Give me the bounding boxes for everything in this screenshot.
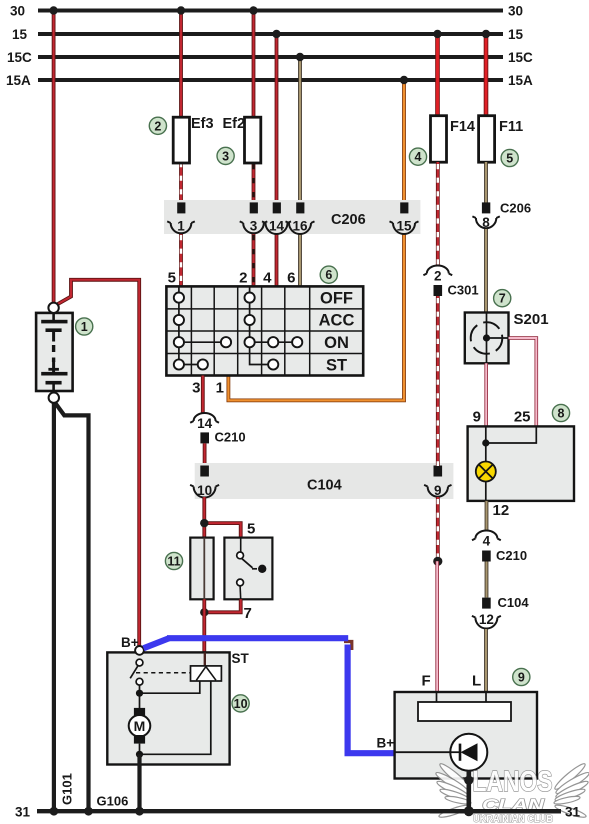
label circled 11: [165, 552, 182, 569]
lamp: [476, 462, 496, 482]
wire battery negative black: [50, 400, 93, 816]
wire alternator ground black overdraw: [430, 771, 581, 820]
wire C210-4 to C104-12 tan: [485, 562, 489, 598]
svg-text:16: 16: [292, 219, 308, 234]
wire F14 output red-white striped: [436, 162, 440, 266]
wire S201 to cluster pin25 pink: [509, 338, 537, 426]
svg-text:15C: 15C: [508, 50, 533, 65]
connector C210 pin 4: [472, 531, 527, 564]
svg-text:1: 1: [81, 320, 88, 334]
connector C104 pin 12: [472, 595, 529, 629]
connector C104 pin 9: [424, 466, 451, 499]
connector C104 band: [195, 463, 454, 499]
wire relay output red: [200, 599, 241, 616]
svg-text:14: 14: [269, 219, 285, 234]
svg-text:F: F: [422, 673, 431, 690]
label circled 1: [76, 318, 93, 335]
fuse F11: [479, 116, 524, 163]
label circled 5: [501, 149, 518, 166]
fuse F14: [431, 116, 476, 163]
svg-text:8: 8: [482, 215, 490, 230]
B+ line and diode: [395, 751, 451, 753]
svg-text:5: 5: [168, 270, 176, 287]
svg-text:30: 30: [10, 4, 25, 19]
svg-text:C301: C301: [448, 283, 479, 298]
solenoid box with arrow: [191, 666, 222, 681]
svg-text:10: 10: [197, 483, 212, 498]
connector C206 pin 1: [167, 202, 195, 233]
svg-text:L: L: [472, 673, 481, 690]
svg-text:B+: B+: [377, 736, 395, 751]
relay coil box: [190, 538, 213, 600]
wire pin1 ignition orange: [228, 233, 404, 400]
svg-text:OFF: OFF: [320, 289, 353, 307]
svg-text:15: 15: [508, 27, 524, 42]
svg-text:9: 9: [473, 409, 481, 426]
connector C206 pin 14: [262, 202, 291, 234]
wire C210 to C104 red: [203, 443, 207, 466]
wire pin5 ignition red-white striped: [179, 233, 183, 287]
svg-text:B+: B+: [121, 635, 139, 650]
svg-text:12: 12: [493, 502, 510, 519]
grid lines: [166, 286, 363, 375]
solenoid input dark wire: [204, 652, 206, 666]
svg-text:31: 31: [15, 805, 31, 820]
svg-text:3: 3: [250, 219, 258, 234]
svg-text:Ef2: Ef2: [223, 116, 246, 132]
svg-text:4: 4: [483, 534, 491, 549]
label circled 6: [320, 266, 337, 283]
svg-text:ACC: ACC: [319, 312, 355, 330]
bus 15: [12, 27, 524, 42]
label circled 4: [409, 148, 426, 165]
wire to alternator F pink: [435, 561, 439, 692]
svg-text:F11: F11: [499, 119, 523, 135]
svg-text:2: 2: [154, 119, 161, 133]
relay contact box: [224, 538, 272, 600]
svg-text:C206: C206: [500, 201, 531, 216]
svg-text:7: 7: [499, 292, 506, 306]
connector C206 pin 15: [390, 202, 419, 234]
connector C104 pin 10: [190, 466, 219, 499]
svg-text:9: 9: [518, 671, 525, 685]
fuse Ef2: [223, 116, 261, 163]
wire F11 supply red: [482, 30, 490, 117]
svg-text:25: 25: [514, 409, 531, 426]
svg-text:14: 14: [197, 416, 213, 431]
ignition pin3 output wire red: [201, 376, 205, 414]
wire battery positive to starter B+ red: [55, 280, 139, 647]
connector C206 pin 16: [286, 202, 315, 234]
bus 30: [10, 4, 523, 19]
battery B1: [36, 303, 73, 403]
svg-text:1: 1: [216, 380, 224, 397]
svg-text:3: 3: [222, 149, 229, 163]
wire C206-8 to S201 tan: [484, 229, 488, 313]
svg-text:1: 1: [177, 219, 185, 234]
IGNITION SWITCH component 6: [166, 286, 363, 375]
wire pin4 ignition red: [275, 233, 279, 287]
wire pin6 ignition tan: [298, 233, 302, 287]
svg-text:ST: ST: [326, 356, 347, 374]
label circled 9: [513, 668, 530, 685]
wire pin2 ignition red-black striped: [252, 233, 256, 287]
bus 15A: [6, 73, 533, 88]
fuse Ef3: [173, 116, 213, 163]
connector C301 pin 2: [423, 266, 478, 298]
motor M: [139, 693, 141, 709]
svg-text:3: 3: [192, 380, 200, 397]
svg-text:15A: 15A: [6, 73, 31, 88]
wire alternator ground black: [464, 771, 473, 816]
label circled 2: [149, 117, 166, 134]
internal connections: [179, 286, 297, 364]
svg-text:4: 4: [263, 270, 272, 287]
wire starter ground black: [135, 754, 144, 815]
svg-text:C210: C210: [496, 548, 527, 563]
svg-text:F14: F14: [450, 119, 475, 135]
B+ terminal: [135, 646, 144, 655]
svg-text:M: M: [134, 718, 146, 734]
wire S201 to cluster pin9 pink: [484, 363, 488, 426]
wire F14 supply red: [433, 30, 441, 117]
connector C206 pin 8: [472, 201, 531, 231]
svg-text:31: 31: [565, 805, 581, 820]
label circled 7: [494, 290, 511, 307]
wire C104-9 down red-white striped: [436, 497, 440, 561]
svg-text:15: 15: [12, 27, 28, 42]
regulator rect: [418, 702, 511, 721]
svg-text:6: 6: [325, 268, 332, 282]
STARTER component 10: [107, 646, 229, 765]
wire C104-10 down red: [202, 497, 206, 538]
svg-text:G101: G101: [60, 773, 75, 805]
wire battery feed red: [49, 6, 57, 304]
svg-text:LANOS: LANOS: [473, 766, 553, 798]
node F wire junction: [433, 557, 442, 566]
svg-text:UKRAINIAN CLUB: UKRAINIAN CLUB: [473, 814, 553, 824]
wire C206-16 supply tan: [296, 53, 304, 203]
svg-text:11: 11: [167, 555, 180, 569]
svg-text:C206: C206: [331, 212, 366, 228]
wire cluster-12 tan: [485, 501, 489, 530]
ALTERNATOR component 9: [395, 692, 537, 779]
contact circles: [174, 293, 303, 370]
wire C206-14 supply red: [272, 30, 280, 203]
svg-text:10: 10: [234, 697, 248, 711]
starter switch: [136, 659, 143, 666]
wire Ef3 supply red: [177, 6, 185, 118]
svg-text:Ef3: Ef3: [191, 116, 214, 132]
svg-text:5: 5: [247, 521, 255, 538]
svg-text:C104: C104: [498, 595, 530, 610]
bus 31: [15, 805, 561, 820]
ignition switch body: [166, 286, 363, 375]
connector C206 band: [164, 200, 420, 234]
blue highlight wire B+ to alternator: [144, 638, 397, 753]
svg-text:8: 8: [558, 407, 565, 421]
label circled 3: [217, 147, 234, 164]
wire to alternator L tan: [484, 629, 488, 692]
svg-text:15A: 15A: [508, 73, 533, 88]
wire Ef3 output red-white striped: [179, 162, 183, 203]
SWITCH S201 component 7: [465, 313, 509, 364]
wire Ef2 output red-black striped: [252, 162, 256, 203]
svg-text:5: 5: [506, 152, 513, 166]
wire relay branch red: [200, 519, 241, 538]
svg-text:9: 9: [434, 483, 442, 498]
wire F11 output tan: [484, 162, 488, 203]
svg-text:G106: G106: [97, 794, 129, 809]
svg-text:15C: 15C: [7, 50, 32, 65]
connector C206 pin 3: [240, 202, 268, 233]
wire C206-15 supply orange: [400, 76, 408, 203]
svg-text:ST: ST: [232, 651, 250, 666]
INSTRUMENT CLUSTER component 8: [468, 426, 574, 501]
wire relay to starter red: [202, 599, 206, 652]
svg-text:4: 4: [415, 150, 422, 164]
svg-text:30: 30: [508, 4, 523, 19]
watermark Lanos Clan: [434, 761, 589, 824]
label circled 8: [552, 404, 569, 421]
wire Ef2 supply red: [249, 6, 257, 118]
svg-text:2: 2: [239, 270, 247, 287]
label circled 10: [232, 695, 249, 712]
bus 15C: [7, 50, 533, 65]
svg-text:6: 6: [287, 270, 295, 287]
svg-text:ON: ON: [324, 334, 349, 352]
svg-text:15: 15: [396, 219, 412, 234]
svg-text:12: 12: [479, 612, 494, 627]
svg-text:S201: S201: [514, 311, 549, 328]
connector C210 pin 14: [190, 413, 245, 445]
svg-text:2: 2: [434, 269, 442, 284]
wire C301 to C104 red-white striped: [436, 296, 440, 466]
svg-text:7: 7: [244, 605, 252, 622]
svg-text:C210: C210: [215, 430, 246, 445]
svg-text:C104: C104: [307, 478, 342, 494]
